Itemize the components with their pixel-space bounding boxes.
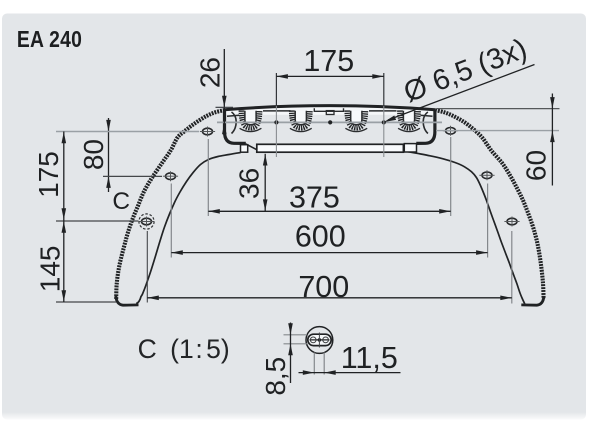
bar left cap [241, 145, 248, 153]
dim 175 top line [276, 75, 383, 77]
dim 700 line [147, 297, 512, 299]
svg-text:80: 80 [78, 139, 109, 170]
dim 8,5 vertical line [290, 323, 292, 384]
hole 2 dot [328, 120, 332, 124]
svg-text:700: 700 [298, 270, 349, 304]
svg-text:11,5: 11,5 [341, 341, 398, 375]
rib pocket inner white at x=409 [403, 111, 414, 125]
svg-text:60: 60 [521, 150, 552, 181]
dim 700 extension left [146, 231, 148, 303]
dim 60 upper arrow [550, 97, 555, 109]
rib pocket bottom arc at x=356.3 [345, 128, 367, 131]
left end step diagonal [246, 144, 258, 150]
cross strap bar [257, 144, 404, 152]
dim 11,5 right arrow [324, 370, 336, 375]
detail slot right drill circle [323, 337, 329, 343]
dim 175 top left arrow [276, 74, 288, 79]
dim 375 line [208, 210, 450, 212]
oval hole pair 3 right [507, 218, 517, 225]
left foot bottom edge [116, 296, 139, 305]
dim 700 left arrow [147, 296, 159, 301]
dim 145 bottom arrow [62, 290, 67, 302]
plate underside segments [227, 111, 433, 116]
dim 175/145 left vertical line [63, 132, 65, 303]
dim 11,5 extension left [313, 353, 315, 375]
dim 700 extension right [511, 231, 513, 304]
oval hole pair 1 right [446, 128, 456, 135]
dim 36 top arrow [263, 154, 268, 166]
dim 80 lower arrow [106, 176, 111, 188]
rib pocket outer at x=409 [400, 110, 418, 127]
svg-text:26: 26 [194, 57, 225, 88]
svg-text:175: 175 [33, 151, 64, 198]
left extension line y131 (gray) [56, 131, 199, 133]
svg-text:375: 375 [289, 180, 340, 214]
detail vertical center mark [318, 333, 320, 348]
svg-text:C(1:5): C(1:5) [138, 334, 230, 364]
hole 1 extension line [275, 73, 277, 106]
dim 8,5 extension bottom [284, 343, 308, 345]
left extension line y221 [56, 220, 139, 222]
detail C indicator circle [139, 214, 154, 229]
leader line dia 6,5 [388, 65, 535, 121]
dim 26 vertical line [223, 49, 225, 137]
fender top surface [225, 106, 436, 110]
left end pocket arc [232, 112, 237, 134]
dim 36 bottom arrow [263, 199, 268, 211]
dim 8,5 lower arrow [288, 344, 293, 356]
detail slot left drill circle [310, 337, 316, 343]
rib pocket bottom arc at x=300.8 [290, 128, 312, 131]
dim 11,5 left arrow [303, 370, 315, 375]
svg-text:36: 36 [234, 168, 265, 199]
svg-text:EA 240: EA 240 [17, 28, 82, 53]
fender right outer edge band (hatched) [435, 110, 544, 299]
rib pocket inner white at x=300.8 [295, 111, 306, 125]
dim 26 lower arrow [222, 123, 227, 135]
detail slot (stadium) [308, 334, 331, 345]
plate top face white strip [226, 107, 434, 115]
dim 175 top right arrow [372, 74, 384, 79]
detail center mark [318, 338, 322, 342]
rib pocket outer at x=250.5 [242, 110, 260, 127]
center clip notch [326, 111, 334, 115]
dim 600 left arrow [171, 250, 183, 255]
hole 1 dot [274, 120, 278, 124]
dim 375 left arrow [208, 209, 220, 214]
rib pocket bottom arc at x=250.5 [240, 128, 262, 131]
dim 60 top extension line [437, 108, 560, 110]
left extension line y176 [103, 175, 162, 177]
left inner arc [136, 153, 240, 304]
detail C circle [306, 327, 333, 354]
dim 60 lower arrow [550, 131, 555, 143]
bar right cap [404, 144, 416, 152]
mounting plate right end [416, 110, 435, 143]
left extension line y302 [56, 301, 116, 303]
dim 26 upper arrow [222, 96, 227, 108]
dim 700 right arrow [500, 296, 512, 301]
dim 11,5 extension right [323, 353, 325, 375]
svg-text:145: 145 [34, 246, 65, 293]
dim 375 extension left [207, 139, 209, 216]
rib pocket bottom arc at x=409 [398, 128, 420, 131]
oval hole pair 2 right [482, 172, 492, 179]
dim 375 extension right [450, 137, 452, 216]
rib pocket inner white at x=250.5 [245, 111, 256, 125]
rib pocket outer at x=300.8 [292, 110, 310, 127]
dim 26 top surface tick [216, 106, 234, 108]
fender left outer edge band (hatched) [116, 110, 224, 299]
dim 8,5 upper arrow [288, 323, 293, 335]
dim 8,5 extension top [284, 334, 308, 336]
center recess line [314, 108, 343, 111]
svg-text:C: C [112, 188, 130, 215]
oval hole pair 3 left (detail C) [142, 218, 152, 225]
dim 600 extension left [170, 184, 172, 258]
right end pocket arc [423, 112, 428, 134]
dim 36 vertical line [264, 154, 266, 211]
hole 3 dot [382, 120, 386, 124]
rib pocket inner white at x=356.3 [351, 111, 362, 125]
dim 80 upper arrow [106, 120, 111, 131]
detail slot mid line [310, 339, 330, 341]
dim 175 left bottom arrow [62, 208, 67, 220]
dim 375 right arrow [439, 209, 451, 214]
rib pocket outer at x=356.3 [347, 110, 365, 127]
svg-text:175: 175 [303, 44, 354, 78]
gray hole centerline [217, 121, 442, 123]
right inner arc [405, 151, 525, 304]
svg-text:8,5: 8,5 [260, 357, 291, 396]
dim 175 left top arrow [62, 132, 67, 144]
mounting plate left end [225, 110, 246, 143]
dim 11,5 line [299, 372, 401, 374]
oval pair1 right centerline to 60 dim [436, 130, 559, 132]
dim 60 vertical line [551, 94, 553, 186]
oval hole pair 2 left [166, 173, 176, 180]
oval hole pair 1 left [203, 128, 213, 135]
right foot bottom edge [521, 296, 544, 305]
dim 600 extension right [487, 184, 489, 258]
leader arrow [384, 116, 396, 123]
dim 600 line [171, 252, 487, 254]
hole 3 extension line [383, 73, 385, 106]
dim 80 vertical line [108, 118, 110, 192]
dim 145 top arrow [62, 221, 67, 233]
dim 600 right arrow [476, 250, 488, 255]
svg-text:600: 600 [295, 220, 346, 254]
